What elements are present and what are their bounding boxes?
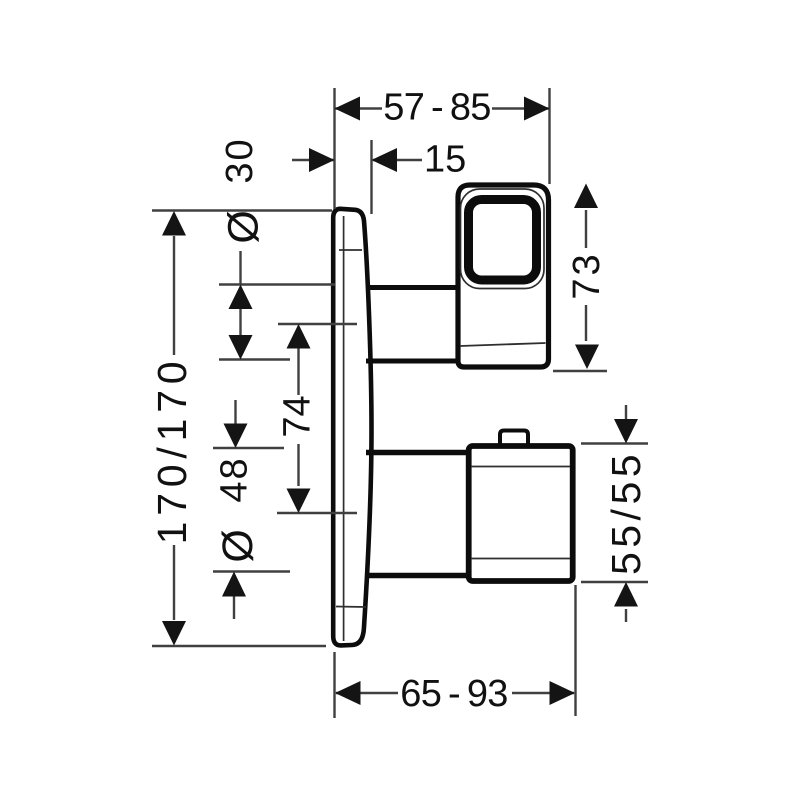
svg-text:65 - 93: 65 - 93 [400, 673, 507, 715]
ext line left of 57-85 [333, 88, 335, 209]
plate seam bottom [336, 606, 366, 609]
tail below dia48 [233, 595, 235, 619]
upper handle [458, 185, 549, 367]
ext line top of 74 [278, 323, 357, 325]
arrow 73 up [574, 184, 598, 209]
ext line top of 170 [152, 209, 332, 211]
dim line 73 [585, 210, 587, 248]
arrow 170 up [162, 211, 186, 236]
dimension 73 [553, 210, 607, 371]
arrow 57-85 left [335, 97, 361, 121]
ext line bottom of dia48 [213, 570, 290, 572]
dimension dia 30 [219, 251, 335, 360]
tail below 55/55 [625, 609, 627, 622]
handle seam [460, 343, 546, 346]
svg-text:55/55: 55/55 [603, 450, 649, 575]
arrow 55/55 down [614, 419, 638, 444]
arrow 170 down [162, 621, 186, 646]
control knob [469, 446, 573, 581]
ext line bottom of 55/55 [581, 581, 648, 583]
svg-text:Ø 48: Ø 48 [214, 456, 263, 562]
arrow dia30 up [229, 285, 253, 310]
ext line bottom of dia30 [219, 358, 290, 360]
ext line right of 15 [370, 140, 372, 214]
knob seam bottom [471, 558, 570, 560]
ext line bottom of 74 [277, 512, 357, 514]
lower stem [366, 453, 470, 576]
knob seam top [471, 466, 570, 468]
dim line 57-85 [335, 107, 383, 109]
arrow dia48 up [222, 572, 246, 597]
svg-text:15: 15 [424, 139, 466, 181]
upper stem [366, 288, 459, 362]
arrow 65-93 left [335, 681, 361, 705]
arrow 15 left [309, 148, 335, 172]
ext line bottom of 73 [553, 370, 607, 372]
ext line top of 55/55 [581, 442, 648, 444]
wall plate [333, 209, 371, 646]
ext line right of 57-85 [548, 88, 550, 184]
ext line right of 65-93 [574, 585, 576, 716]
dimension 65-93 [335, 585, 576, 718]
handle window [469, 200, 537, 281]
dimension 170/170 [152, 211, 332, 647]
tail above dia48 [234, 400, 236, 424]
arrow 73 down [575, 345, 599, 370]
tail above 55/55 [625, 405, 627, 419]
svg-text:74: 74 [277, 395, 319, 437]
dimension 74 [277, 324, 357, 513]
ext line bottom of 170 [152, 645, 326, 647]
plate inner edge line [343, 216, 345, 641]
dimension 57-85 [335, 88, 550, 209]
handle window accent [461, 189, 545, 289]
ext line left of 65-93 [333, 652, 335, 718]
dim line 170 [173, 236, 175, 355]
dimension dia 48 [213, 400, 290, 619]
arrow 55/55 up [614, 582, 638, 607]
svg-text:73: 73 [566, 251, 608, 299]
dim line dia30 [239, 251, 241, 284]
svg-text:170/170: 170/170 [149, 356, 195, 545]
dimension 15 [292, 140, 422, 214]
arrow 65-93 right [550, 681, 576, 705]
arrow 57-85 right [524, 97, 550, 121]
dim line 65-93 [336, 692, 398, 694]
ext line top of dia30 [219, 283, 335, 285]
arrow 74 up [287, 324, 311, 349]
arrow 74 down [287, 489, 311, 514]
svg-text:Ø 30: Ø 30 [219, 137, 268, 243]
arrow dia30 down [229, 335, 253, 360]
arrow 15 right [372, 148, 398, 172]
plate seam top [339, 249, 362, 251]
svg-text:57 - 85: 57 - 85 [383, 87, 490, 129]
dim line 15 [292, 159, 335, 161]
arrow dia48 down [224, 424, 248, 449]
knob tab [500, 431, 528, 449]
dimension 55/55 [581, 405, 648, 622]
dim line 74 [297, 348, 299, 395]
ext line top of dia48 [213, 447, 284, 449]
